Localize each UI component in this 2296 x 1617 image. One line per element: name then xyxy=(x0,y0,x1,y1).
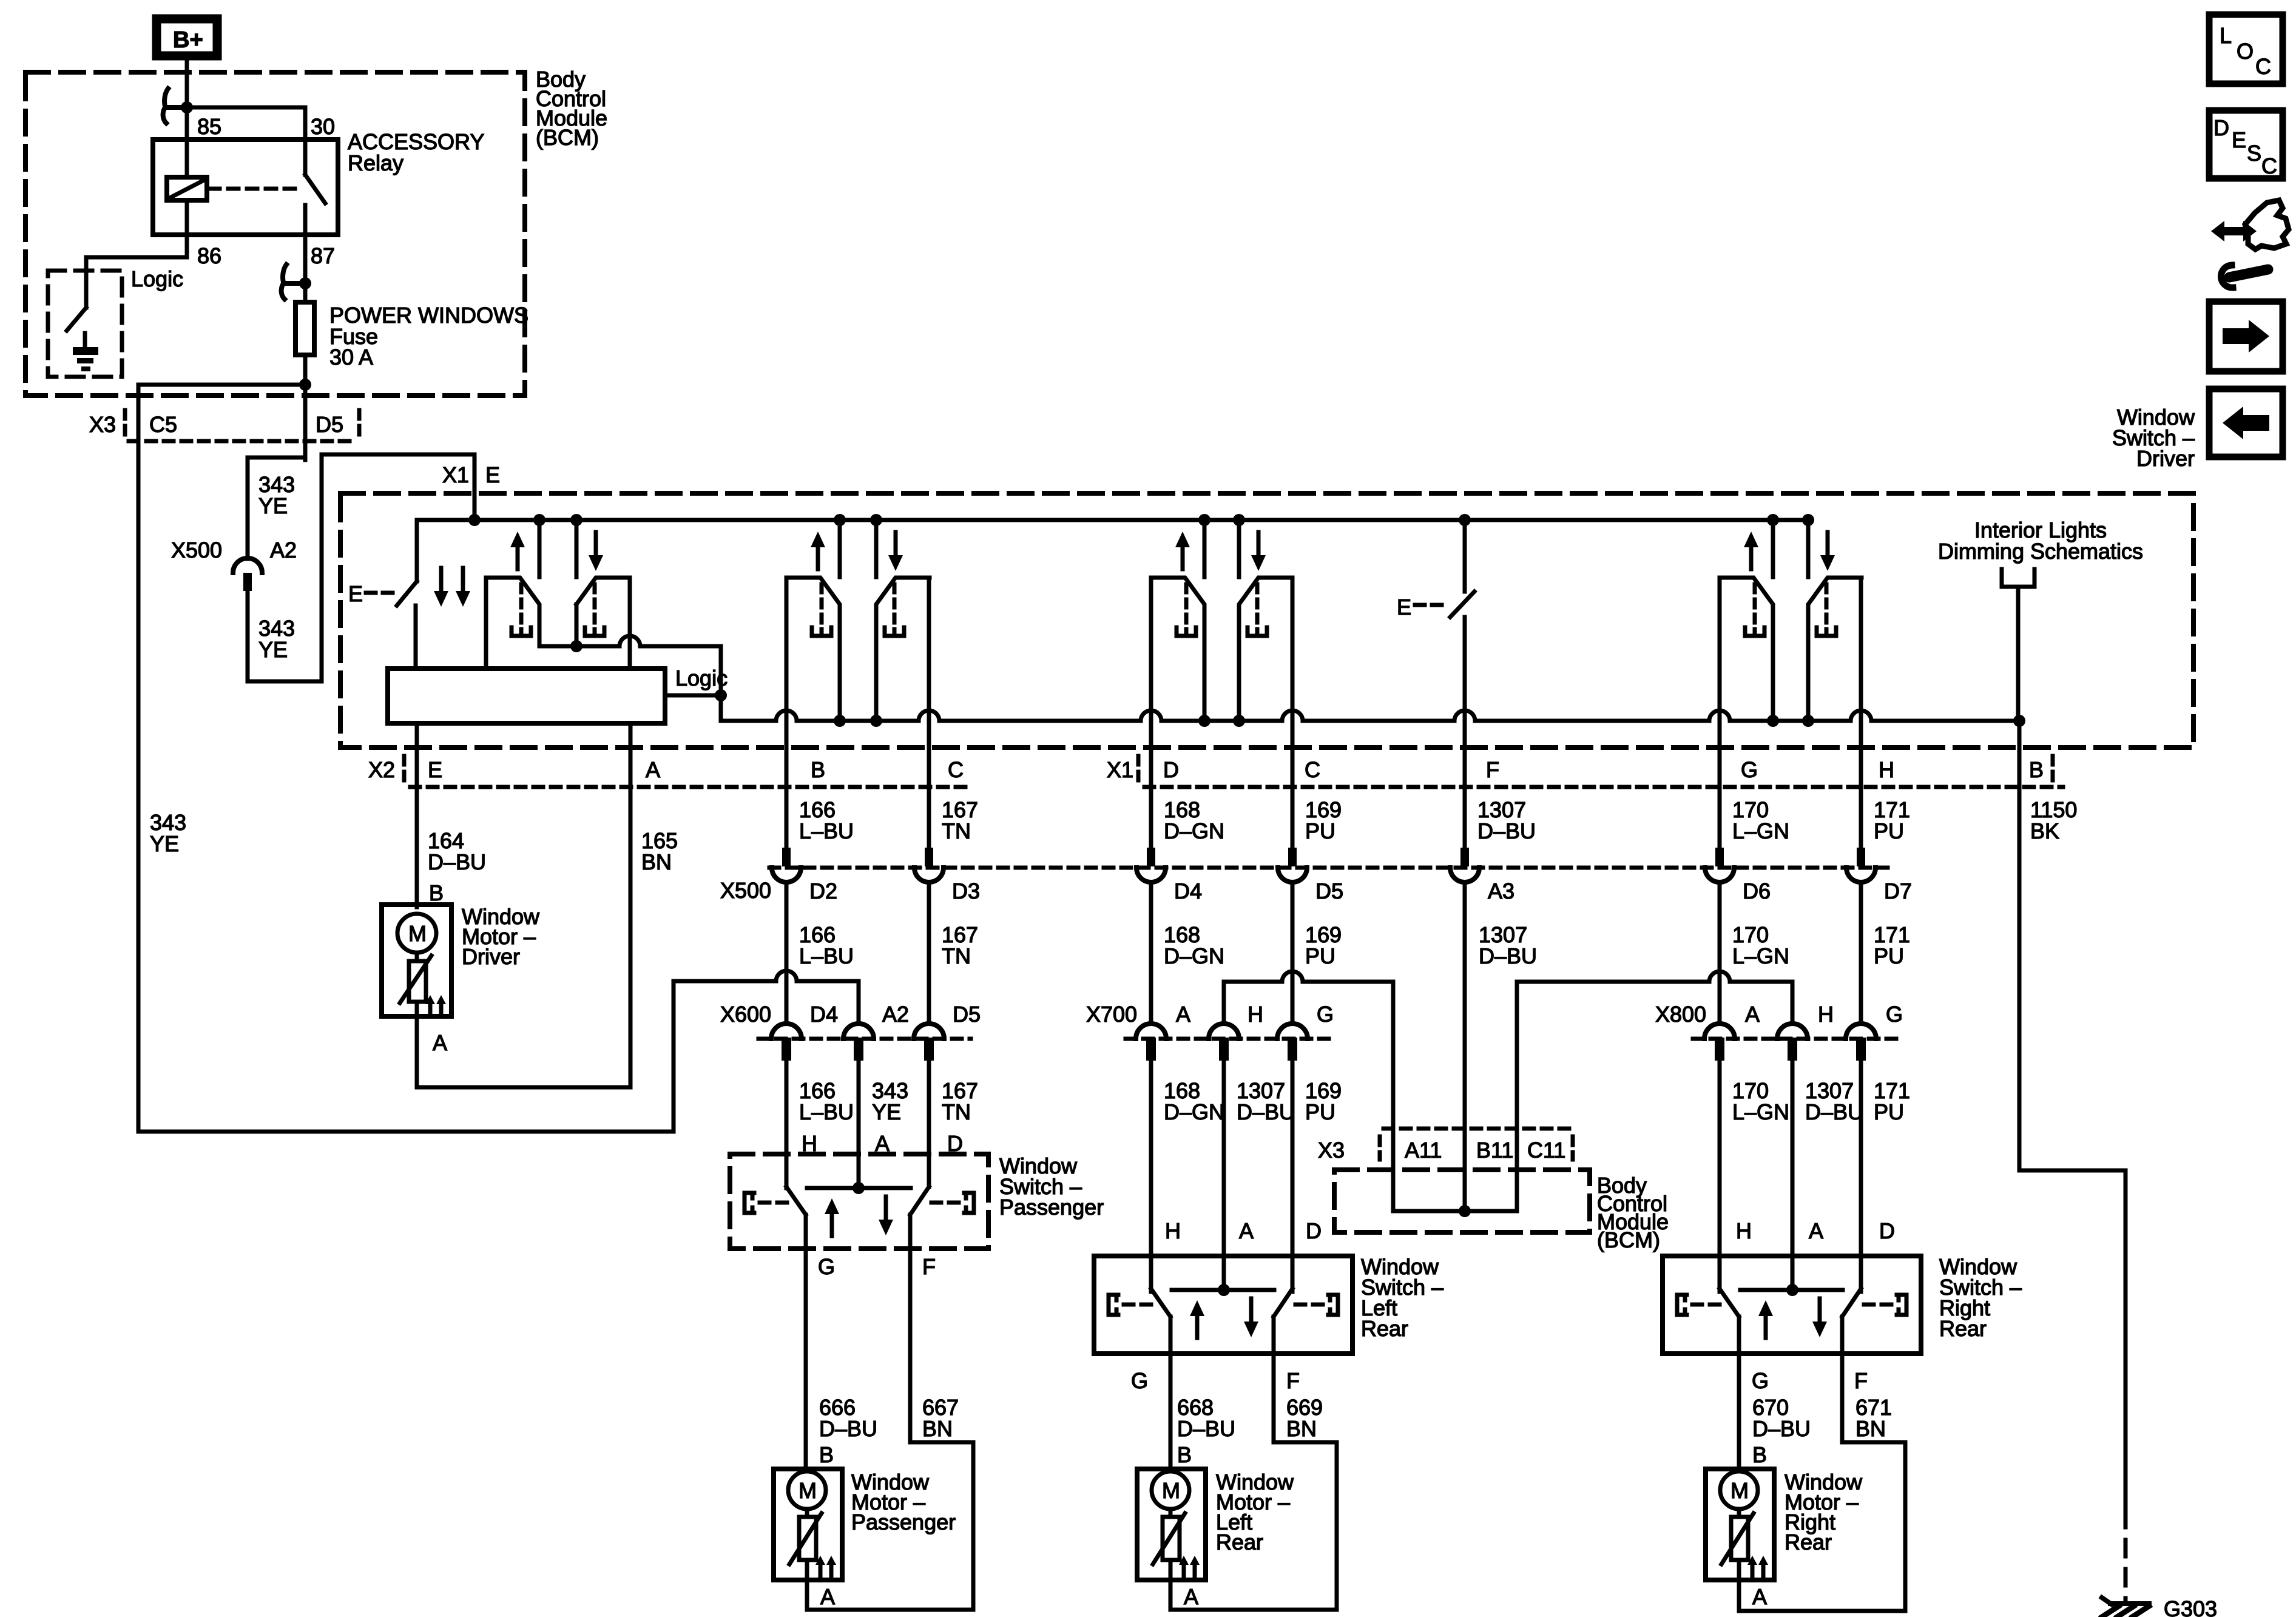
svg-text:G: G xyxy=(1317,1002,1334,1027)
window switch driver assembly box (dashed) xyxy=(340,493,2193,748)
bus junction dot down contact xyxy=(870,514,882,526)
svg-text:(BCM): (BCM) xyxy=(1597,1227,1660,1252)
motor wire through xyxy=(1169,1469,1173,1471)
wire 164 D-BU driver up xyxy=(415,723,419,905)
bus junction dot down contact xyxy=(1802,514,1814,526)
svg-text:Logic: Logic xyxy=(675,666,728,690)
connector X2 tick xyxy=(402,756,407,784)
down arrow symbol xyxy=(1826,532,1830,558)
svg-text:PU: PU xyxy=(1305,819,1335,843)
connector X3 right tick xyxy=(357,410,362,439)
svg-text:D4: D4 xyxy=(1174,879,1202,903)
wire 343 YE under driver motor xyxy=(138,1130,674,1134)
motor M circle xyxy=(788,1471,826,1509)
svg-text:30 A: 30 A xyxy=(329,345,373,370)
wire rear lockout to X1 F xyxy=(1463,617,1467,711)
motor M circle xyxy=(1152,1471,1189,1509)
wire 167 TN to X600 D5 xyxy=(927,882,931,1024)
connector X500 D3 xyxy=(925,848,933,866)
svg-text:D–BU: D–BU xyxy=(1805,1099,1863,1124)
svg-text:YE: YE xyxy=(872,1099,901,1124)
connector X1 right tick xyxy=(2051,756,2055,784)
junction dot switch common xyxy=(853,1182,865,1194)
wire to ground (dashed) xyxy=(2124,1511,2128,1602)
switch funnel up-side xyxy=(786,1187,806,1215)
junction dot logic output xyxy=(715,689,727,701)
icon DESC box xyxy=(2209,110,2283,178)
window motor box xyxy=(1137,1469,1206,1580)
svg-text:B+: B+ xyxy=(173,27,203,53)
svg-text:BN: BN xyxy=(1855,1416,1886,1441)
motor M circle xyxy=(1720,1471,1758,1509)
POWER WINDOWS fuse body xyxy=(295,302,314,355)
svg-text:A3: A3 xyxy=(1488,879,1514,903)
svg-text:L–BU: L–BU xyxy=(799,819,854,843)
svg-text:O: O xyxy=(2237,39,2254,64)
svg-text:D5: D5 xyxy=(953,1002,981,1027)
svg-text:E: E xyxy=(348,581,363,606)
relay switch blade 30-87 xyxy=(303,140,308,175)
junction dot driver pair common xyxy=(570,640,582,652)
svg-text:B: B xyxy=(429,880,444,905)
junction dot pin 87 node xyxy=(299,277,311,289)
svg-text:B: B xyxy=(819,1442,834,1467)
svg-text:B11: B11 xyxy=(1476,1138,1513,1163)
junction dot switch common xyxy=(1218,1284,1230,1296)
svg-text:M: M xyxy=(1162,1478,1180,1503)
up contact wire from bus xyxy=(1203,520,1207,577)
svg-text:A2: A2 xyxy=(270,538,297,562)
wire C5 drop xyxy=(137,385,141,444)
junction dot rear lockout on bus xyxy=(1459,514,1471,526)
splice hook at fuse feed xyxy=(283,281,304,286)
svg-text:D–BU: D–BU xyxy=(1479,944,1537,968)
motor arrows xyxy=(1751,1562,1755,1576)
icon forward arrow box xyxy=(2209,302,2283,371)
connector X3 band line (BCM lower) xyxy=(1383,1127,1572,1131)
wire 165 BN driver down xyxy=(629,723,633,1087)
up contact wire from bus xyxy=(1771,520,1775,577)
bus junction dot down contact xyxy=(1233,514,1245,526)
off-page connector staple xyxy=(2002,569,2034,587)
svg-text:F: F xyxy=(1854,1368,1868,1393)
svg-text:A11: A11 xyxy=(1405,1138,1442,1163)
wire to relay pin 85 xyxy=(185,107,189,177)
motor wire through xyxy=(805,1469,809,1471)
wire 168 D-GN to X500 D4 xyxy=(1149,578,1153,848)
wire 169 PU to X500 D5 xyxy=(1291,578,1295,848)
wire B+ to BCM xyxy=(185,60,189,107)
wire 343 YE D5 jog to X500 A2 xyxy=(248,456,305,460)
connector X600 D4 xyxy=(771,1024,802,1039)
svg-text:D–BU: D–BU xyxy=(1237,1099,1295,1124)
svg-text:L–GN: L–GN xyxy=(1732,1099,1789,1124)
svg-text:H: H xyxy=(1818,1002,1834,1027)
svg-text:Rear: Rear xyxy=(1216,1530,1263,1555)
connector X800 A xyxy=(1704,1024,1735,1039)
express-down arrows xyxy=(439,568,444,593)
svg-text:C: C xyxy=(2261,154,2277,178)
wire 1307 into right rear switch A xyxy=(1791,1062,1795,1291)
svg-text:86: 86 xyxy=(197,243,221,268)
down arrow symbol xyxy=(1257,532,1261,558)
window switch right rear box xyxy=(1663,1256,1921,1354)
relay coil xyxy=(167,177,207,200)
switch left bracket xyxy=(1109,1295,1118,1315)
svg-text:PU: PU xyxy=(1874,944,1904,968)
driver motor wire through xyxy=(415,905,419,907)
switch common bar xyxy=(1740,1288,1843,1292)
svg-text:Logic: Logic xyxy=(131,266,183,291)
svg-text:87: 87 xyxy=(311,243,335,268)
svg-text:Relay: Relay xyxy=(348,150,403,175)
down arrow symbol xyxy=(894,532,898,558)
wire relay 86 to logic switch xyxy=(185,235,189,257)
driver lockout dashes xyxy=(366,591,394,595)
svg-text:Driver: Driver xyxy=(2136,446,2195,471)
BCM logic block (dashed) xyxy=(48,271,122,377)
bus junction dot up contact xyxy=(1767,514,1779,526)
svg-text:C5: C5 xyxy=(149,412,177,437)
wire fuse to X3 splice xyxy=(303,355,308,385)
svg-text:(BCM): (BCM) xyxy=(536,125,599,150)
svg-text:B: B xyxy=(1177,1442,1192,1467)
svg-text:X500: X500 xyxy=(171,538,222,562)
wire 166 L-BU to X500 D2 xyxy=(785,578,789,848)
BCM lower box (dashed) xyxy=(1334,1170,1590,1232)
wire 171 PU to X500 D7 xyxy=(1859,578,1863,848)
driver lockout switch blade xyxy=(397,581,417,606)
bus junction dot up contact xyxy=(533,514,545,526)
connector X700 G xyxy=(1277,1024,1308,1039)
rear lockout switch feed xyxy=(1463,520,1467,592)
wire 171 PU to X800 G xyxy=(1859,882,1863,1024)
wire 166 L-BU to X600 D4 xyxy=(785,882,789,1024)
svg-text:PU: PU xyxy=(1305,944,1335,968)
svg-text:Driver: Driver xyxy=(462,944,520,969)
svg-text:30: 30 xyxy=(311,114,335,139)
driver lockout switch E feed xyxy=(415,520,419,581)
svg-text:D–BU: D–BU xyxy=(819,1416,877,1441)
up contact wire from bus xyxy=(538,520,542,577)
switch funnel down-side xyxy=(1274,1289,1292,1317)
svg-text:D7: D7 xyxy=(1884,879,1912,903)
down contact wire from bus xyxy=(575,520,579,577)
switch common bar xyxy=(807,1186,911,1190)
svg-text:A: A xyxy=(1176,1002,1190,1027)
up arrow symbol xyxy=(1749,545,1754,569)
up contact wire from bus xyxy=(838,520,842,577)
wire branch to X3 C5 xyxy=(138,383,305,387)
svg-text:H: H xyxy=(1736,1218,1752,1243)
driver motor M circle xyxy=(397,914,436,953)
driver motor thermistor xyxy=(409,961,426,1002)
down contact wire from bus xyxy=(1237,520,1241,577)
junction dots on common line xyxy=(834,715,846,727)
svg-text:YE: YE xyxy=(150,831,179,856)
svg-text:X2: X2 xyxy=(368,757,395,782)
switch down arrow xyxy=(1249,1298,1254,1324)
down arrow symbol xyxy=(594,532,598,558)
svg-text:G: G xyxy=(1886,1002,1903,1027)
svg-text:X700: X700 xyxy=(1086,1002,1137,1027)
connector X500 D5 xyxy=(1288,848,1297,866)
ground symbol inside BCM xyxy=(73,347,98,355)
wire interior lights to common xyxy=(2016,587,2021,721)
icon LOC box xyxy=(2209,15,2283,84)
wire 669 BN motor return xyxy=(1272,1354,1276,1442)
connector X3 ticks xyxy=(1378,1136,1382,1160)
svg-text:YE: YE xyxy=(258,493,288,518)
svg-text:Rear: Rear xyxy=(1939,1316,1987,1341)
svg-text:D: D xyxy=(2213,115,2229,140)
down contact housing (pentagon) xyxy=(876,578,930,719)
svg-text:G: G xyxy=(1741,757,1758,782)
relay coil-contact link (dashed) xyxy=(209,187,303,191)
battery feed B+ terminal box xyxy=(157,19,217,56)
svg-text:D–GN: D–GN xyxy=(1164,819,1224,843)
svg-text:Passenger: Passenger xyxy=(999,1195,1104,1220)
up contact housing (pentagon) xyxy=(1151,578,1204,719)
connector X600 band line xyxy=(758,1037,971,1041)
motor wire through xyxy=(1737,1469,1741,1471)
switch funnel up-side xyxy=(1720,1289,1739,1317)
wire 1307 D-BU to X500 A3 xyxy=(1463,711,1467,848)
svg-text:B: B xyxy=(2029,757,2044,782)
wire 167 TN to X500 D3 xyxy=(927,578,931,848)
svg-text:D3: D3 xyxy=(952,879,980,903)
down contact wire from bus xyxy=(1806,520,1811,577)
connector X1 tick xyxy=(1136,756,1141,784)
wire 670 D-BU to motor xyxy=(1737,1354,1741,1469)
switch up arrow xyxy=(830,1212,834,1236)
wire logic module output xyxy=(665,694,721,698)
svg-text:L: L xyxy=(2220,23,2232,48)
connector X500 A3 xyxy=(1460,848,1469,866)
svg-text:C: C xyxy=(1305,757,1320,782)
svg-text:L–GN: L–GN xyxy=(1732,819,1789,843)
wire 167 TN into passenger switch D xyxy=(927,1062,931,1187)
switch up arrow xyxy=(1195,1314,1200,1338)
connector X500 D6 xyxy=(1715,848,1724,866)
switch left bracket xyxy=(1677,1295,1687,1315)
up contact detent xyxy=(820,584,824,625)
svg-text:C: C xyxy=(2255,54,2271,79)
wire 1150 BK to ground xyxy=(2017,721,2022,1170)
connector X500 D7 xyxy=(1857,848,1865,866)
up arrow symbol xyxy=(816,545,820,569)
svg-text:D: D xyxy=(1306,1218,1322,1243)
icon back arrow box xyxy=(2209,389,2283,457)
wire 671 BN motor return xyxy=(1840,1354,1845,1442)
svg-text:A: A xyxy=(646,757,660,782)
svg-text:M: M xyxy=(1730,1478,1749,1503)
svg-text:X500: X500 xyxy=(720,878,771,903)
svg-text:H: H xyxy=(1248,1002,1263,1027)
motor thermistor xyxy=(799,1517,816,1560)
svg-text:X3: X3 xyxy=(1318,1138,1345,1163)
connector X3 band line xyxy=(129,439,352,444)
svg-text:B: B xyxy=(1752,1442,1767,1467)
icon wrench and arrows xyxy=(2211,221,2257,241)
up contact housing (pentagon) xyxy=(786,578,840,719)
down contact detent xyxy=(1825,584,1829,625)
junction dot X1 E on bus xyxy=(468,514,481,526)
svg-text:G303: G303 xyxy=(2164,1596,2217,1617)
motor arrows xyxy=(1182,1562,1186,1576)
wire 1150 BK jog to ground xyxy=(2019,1169,2125,1173)
down contact detent xyxy=(1255,584,1260,625)
switch common bar xyxy=(1172,1288,1274,1292)
svg-text:E: E xyxy=(485,462,500,487)
svg-text:D–BU: D–BU xyxy=(1752,1416,1811,1441)
switch right bracket xyxy=(1897,1295,1906,1315)
driver motor arrows xyxy=(428,1002,433,1015)
svg-text:D–GN: D–GN xyxy=(1164,944,1224,968)
wire 1307 D-BU to BCM B11 xyxy=(1463,882,1467,1211)
wire 668 D-BU to motor xyxy=(1169,1354,1173,1469)
svg-text:L–BU: L–BU xyxy=(799,1099,854,1124)
relay pin 87 lead xyxy=(303,205,308,302)
rear lockout switch blade xyxy=(1450,592,1474,617)
switch funnel up-side xyxy=(1151,1289,1170,1317)
connector X800 H xyxy=(1777,1024,1808,1039)
connector X600 A2 xyxy=(843,1024,874,1039)
splice hook at B+ entry xyxy=(165,105,186,110)
accessory relay box xyxy=(153,140,338,235)
svg-text:L–GN: L–GN xyxy=(1732,944,1789,968)
svg-text:Rear: Rear xyxy=(1361,1316,1408,1341)
svg-text:S: S xyxy=(2247,141,2261,166)
rear lockout dashes xyxy=(1415,603,1444,607)
svg-text:D: D xyxy=(1163,757,1179,782)
down contact housing (pentagon) xyxy=(1239,578,1292,719)
connector X500 A2 (inline) xyxy=(233,558,262,573)
junction dot node 85/30 feed xyxy=(181,101,193,113)
up arrow symbol xyxy=(1181,545,1185,569)
svg-text:Rear: Rear xyxy=(1784,1530,1832,1555)
svg-text:D–BU: D–BU xyxy=(1477,819,1536,843)
driver pair common link xyxy=(539,636,721,646)
svg-text:H: H xyxy=(1879,757,1894,782)
window switch passenger box (dashed) xyxy=(730,1154,988,1249)
junction dot BCM 1307 xyxy=(1459,1205,1471,1217)
svg-text:G: G xyxy=(1752,1368,1769,1393)
svg-text:BK: BK xyxy=(2030,819,2059,843)
motor thermistor xyxy=(1163,1517,1180,1560)
svg-text:D–GN: D–GN xyxy=(1164,1099,1224,1124)
svg-text:A: A xyxy=(1745,1002,1760,1027)
switch left bracket xyxy=(745,1193,754,1213)
wire 1307 branch to X800 H xyxy=(1517,971,1792,982)
wire 666 D-BU to motor xyxy=(804,1249,808,1469)
up arrow symbol xyxy=(516,545,520,569)
svg-text:B: B xyxy=(811,757,825,782)
svg-text:D5: D5 xyxy=(1315,879,1343,903)
svg-text:PU: PU xyxy=(1874,1099,1904,1124)
svg-text:X3: X3 xyxy=(89,412,116,437)
svg-text:M: M xyxy=(799,1478,817,1503)
wire 169 PU to X700 G xyxy=(1291,882,1295,1024)
motor arrows xyxy=(819,1562,823,1576)
driver switch supply bus xyxy=(417,518,1808,522)
svg-text:85: 85 xyxy=(197,114,221,139)
switch right bracket xyxy=(964,1193,974,1213)
connector X500 D2 xyxy=(782,848,791,866)
svg-text:Dimming Schematics: Dimming Schematics xyxy=(1938,539,2143,564)
switch common return line xyxy=(721,711,2019,721)
svg-text:A2: A2 xyxy=(882,1002,909,1027)
switch down arrow xyxy=(884,1197,888,1222)
svg-text:D–BU: D–BU xyxy=(1177,1416,1235,1441)
switch funnel down-side xyxy=(910,1187,929,1215)
svg-text:BN: BN xyxy=(1286,1416,1317,1441)
svg-text:BN: BN xyxy=(922,1416,953,1441)
wire 343 YE over to X600 A2 xyxy=(674,971,859,981)
wire 343 YE into passenger switch A xyxy=(857,1062,861,1188)
connector X700 H xyxy=(1209,1024,1239,1039)
switch up arrow xyxy=(1764,1314,1768,1338)
up contact detent xyxy=(1184,584,1189,625)
svg-text:TN: TN xyxy=(942,819,971,843)
svg-text:E: E xyxy=(1397,595,1411,619)
svg-text:X1: X1 xyxy=(442,462,469,487)
svg-text:A: A xyxy=(1184,1584,1198,1609)
svg-text:C: C xyxy=(948,757,964,782)
wire 343 YE from A2 up-and-over to X1 E xyxy=(246,591,250,681)
up contact housing (pentagon) xyxy=(486,578,539,669)
wire 168 into left rear switch H xyxy=(1149,1062,1153,1292)
svg-text:TN: TN xyxy=(942,1099,971,1124)
wire pin 85 through coil to 86 xyxy=(185,200,189,235)
logic switch blade xyxy=(67,308,86,331)
wire D5 drop xyxy=(303,385,308,460)
svg-text:Passenger: Passenger xyxy=(851,1510,956,1534)
connector X800 G xyxy=(1846,1024,1876,1039)
switch down arrow xyxy=(1818,1298,1822,1324)
bus junction dot up contact xyxy=(834,514,846,526)
up contact detent xyxy=(1753,584,1757,625)
svg-text:D2: D2 xyxy=(809,879,837,903)
logic switch lower terminal xyxy=(83,333,87,348)
wire 170 L-GN to X800 A xyxy=(1718,882,1722,1024)
svg-text:M: M xyxy=(408,921,427,946)
connector X2 band line xyxy=(410,785,971,789)
svg-text:PU: PU xyxy=(1305,1099,1335,1124)
driver switch logic module box xyxy=(388,669,665,723)
svg-text:C11: C11 xyxy=(1527,1138,1565,1163)
wire 343 YE long branch from C5 xyxy=(137,441,141,1132)
svg-text:D5: D5 xyxy=(316,412,343,437)
window motor box xyxy=(1706,1469,1774,1580)
wire 166 into passenger switch H xyxy=(785,1062,789,1188)
junction dot fuse output xyxy=(299,379,311,391)
wire to relay pin 30 xyxy=(187,106,305,110)
motor thermistor xyxy=(1731,1517,1748,1560)
wire 170 L-GN to X500 D6 xyxy=(1718,578,1722,848)
svg-text:E: E xyxy=(428,757,442,782)
connector X700 band line xyxy=(1126,1037,1335,1041)
wire 1307 into left rear switch A xyxy=(1222,1062,1226,1292)
svg-text:A: A xyxy=(1752,1584,1767,1609)
BCM internal 1307 bus xyxy=(1393,1209,1517,1214)
up contact detent xyxy=(519,584,524,625)
svg-text:G: G xyxy=(818,1254,835,1279)
svg-text:H: H xyxy=(1165,1218,1181,1243)
svg-text:E: E xyxy=(2232,127,2246,152)
wire 169 into left rear switch D xyxy=(1291,1062,1295,1292)
svg-text:X600: X600 xyxy=(720,1002,771,1027)
